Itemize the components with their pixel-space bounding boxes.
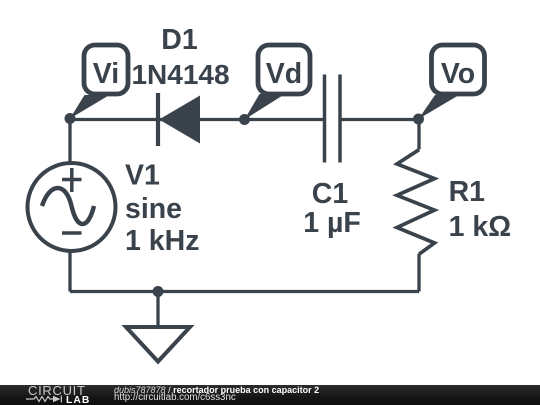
wire from V1 bottom terminal down to bottom rail xyxy=(68,250,71,292)
ground xyxy=(126,327,190,362)
logo diode glyph xyxy=(53,395,61,402)
wire from node Vi down to V1 top terminal xyxy=(68,118,71,164)
voltage source V1 xyxy=(28,163,116,251)
svg-text:LAB: LAB xyxy=(66,395,90,405)
Vo flag pointer xyxy=(419,95,460,119)
node flag Vo xyxy=(419,45,485,119)
node flag Vd xyxy=(245,45,311,120)
Vd flag box xyxy=(258,45,310,94)
footer bar xyxy=(0,385,540,405)
C1 left plate xyxy=(323,75,327,163)
Vi flag box xyxy=(84,45,128,94)
svg-text:Vo: Vo xyxy=(441,58,475,90)
wire from node Vo down to resistor R1 top xyxy=(417,119,420,150)
CircuitLab logo xyxy=(0,385,100,405)
Vo flag box xyxy=(432,45,485,94)
svg-text:1 kHz: 1 kHz xyxy=(125,225,199,257)
wire top right: capacitor right plate to node Vo xyxy=(340,118,419,121)
node flag Vi xyxy=(70,45,128,119)
svg-text:Vd: Vd xyxy=(266,58,302,90)
D1 anode triangle xyxy=(159,96,200,144)
svg-text:sine: sine xyxy=(125,193,182,225)
wire ground stem xyxy=(156,292,159,328)
svg-text:R1: R1 xyxy=(449,176,486,208)
Vi flag pointer xyxy=(70,95,110,119)
node dot ground junction xyxy=(153,286,164,297)
svg-text:V1: V1 xyxy=(125,160,160,192)
footer text xyxy=(114,386,319,395)
svg-text:1 µF: 1 µF xyxy=(303,207,361,239)
capacitor C1 xyxy=(325,75,341,163)
node dot Vo xyxy=(413,114,424,125)
svg-text:C1: C1 xyxy=(312,178,349,210)
D1 cathode bar xyxy=(156,93,160,146)
diode D1 xyxy=(158,93,200,146)
wire top left: node Vi to capacitor left plate xyxy=(70,118,325,121)
node dot Vd xyxy=(239,114,250,125)
node dot Vi xyxy=(65,113,76,124)
wire from resistor R1 bottom to bottom rail xyxy=(417,254,420,292)
svg-text:1 kΩ: 1 kΩ xyxy=(449,211,511,243)
svg-text:D1: D1 xyxy=(161,24,198,56)
logo resistor glyph xyxy=(26,396,53,401)
V1 plus sign xyxy=(62,168,82,192)
svg-text:1N4148: 1N4148 xyxy=(131,59,229,90)
resistor R1 xyxy=(397,150,435,255)
V1 sine symbol xyxy=(42,188,94,224)
wire bottom rail xyxy=(70,290,419,293)
V1 body circle xyxy=(28,163,116,251)
svg-text:Vi: Vi xyxy=(93,58,119,90)
Vd flag pointer xyxy=(245,94,286,120)
V1 minus sign xyxy=(62,231,82,235)
C1 right plate xyxy=(338,75,342,163)
